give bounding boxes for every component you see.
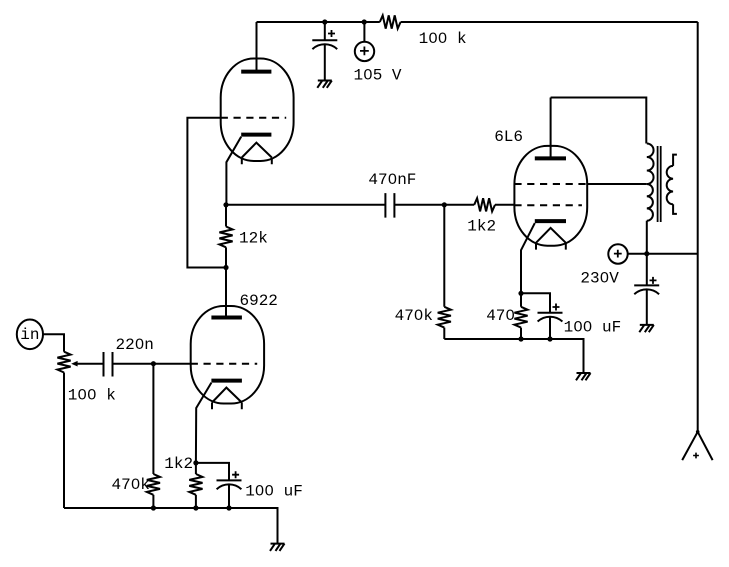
node 105V source junction: [362, 19, 367, 24]
svg-text:220n: 220n: [116, 336, 154, 354]
ground (stage 1 rail): [270, 544, 285, 551]
svg-text:470k: 470k: [112, 476, 150, 494]
triode V1a heater: [212, 388, 242, 410]
transformer T1 core: [658, 146, 661, 222]
wire screen grid to transformer tap: [587, 183, 647, 185]
wire V1b cathode lead: [226, 137, 241, 205]
pentode V2 control grid: [514, 204, 582, 206]
wire V2 cathode lead: [521, 223, 535, 293]
wire ground rail stage 1: [64, 508, 278, 544]
capacitor 230V electrolytic: [634, 254, 659, 325]
wire 12k bottom to V1a plate: [225, 268, 227, 318]
svg-text:230V: 230V: [580, 270, 619, 288]
svg-text:1k2: 1k2: [467, 218, 496, 236]
node B+ junction: [644, 251, 649, 256]
capacitor 470nF coupling: [385, 193, 444, 218]
triode V1b heater: [242, 143, 272, 165]
wire ground rail stage 2: [444, 339, 583, 373]
resistor 470k (6L6 grid leak): [438, 205, 451, 339]
triode V1b upper (cascode) envelope: [221, 59, 294, 162]
svg-text:6L6: 6L6: [494, 128, 523, 146]
resistor 12k: [219, 205, 232, 268]
triode V1a cathode: [211, 379, 242, 383]
wire B+ junction to right bus: [647, 253, 698, 255]
capacitor 220n: [104, 352, 154, 377]
wire V1a cathode lead: [196, 383, 212, 463]
wire V2 plate to transformer: [551, 98, 647, 144]
svg-text:105 V: 105 V: [354, 67, 402, 85]
potentiometer wiper arrow: [71, 361, 103, 367]
wire pot bottom to ground rail: [63, 373, 65, 509]
svg-text:100 uF: 100 uF: [245, 483, 303, 501]
triode V1a (6922 input) envelope: [191, 306, 264, 404]
svg-text:12k: 12k: [239, 230, 268, 248]
svg-text:1k2: 1k2: [164, 455, 193, 473]
potentiometer 100 k body: [57, 352, 70, 373]
source 230V: [608, 244, 647, 263]
pentode V2 heater: [536, 228, 566, 250]
ground (230V cap): [639, 325, 654, 332]
triode V1b grid: [221, 117, 287, 119]
wire right vertical bus: [697, 22, 699, 432]
capacitor 100 uF (V1a cathode bypass): [196, 463, 242, 508]
zero-glyph dot masks: [81, 36, 606, 492]
svg-text:470k: 470k: [395, 307, 433, 325]
wire junction to V1a grid: [153, 363, 190, 365]
pentode V2 plate: [535, 98, 566, 159]
node plate-supply junction (filter cap): [322, 19, 327, 24]
node V1a cathode junction: [193, 460, 198, 465]
node rail2 dot cap: [547, 336, 552, 341]
transformer T1 primary: [647, 144, 654, 221]
resistor 1k2 (V1a cathode): [189, 463, 202, 508]
pentode V2 cathode: [535, 219, 566, 223]
node 6L6 grid junction: [442, 202, 447, 207]
resistor 470 (V2 cathode): [514, 293, 527, 339]
source 105 V: [355, 22, 374, 61]
node V2 cathode junction: [518, 291, 523, 296]
svg-text:100 uF: 100 uF: [564, 319, 622, 337]
capacitor 100 uF (V2 cathode bypass): [521, 293, 563, 339]
node cascode cathode junction: [223, 202, 228, 207]
wire input to pot: [43, 334, 64, 351]
wire V1b grid lead (to 12k bottom): [187, 118, 226, 268]
node rail2 dot 470: [518, 336, 523, 341]
pentode V2 (6L6) envelope: [514, 146, 587, 246]
svg-text:in: in: [20, 326, 39, 344]
resistor 1k2 (6L6 grid stopper): [444, 198, 514, 211]
ground (stage 2 rail): [576, 373, 591, 380]
resistor 470k (grid leak V1a): [147, 364, 160, 508]
wire top B+ rail right segment: [401, 21, 698, 23]
triode V1b cathode: [241, 133, 271, 137]
wire primary bottom lead: [646, 221, 648, 254]
triode V1a grid: [191, 363, 258, 365]
svg-text:6922: 6922: [240, 292, 278, 310]
pentode V2 screen grid: [514, 183, 587, 185]
node grid junction V1a: [151, 361, 156, 366]
wire junction to coupling cap: [226, 204, 385, 206]
triode V1a plate: [211, 316, 242, 320]
ground (filter cap): [317, 81, 332, 88]
node rail dot cap: [226, 505, 231, 510]
capacitor 100uF filter (105V node): [312, 22, 337, 81]
input terminal circle "in": [17, 320, 43, 350]
resistor 100 k (dropping): [380, 15, 401, 28]
wire top B+ rail left segment: [257, 21, 380, 23]
node 12k bottom junction: [223, 265, 228, 270]
node rail dot 470k: [151, 505, 156, 510]
node rail dot 1k2: [193, 505, 198, 510]
transformer T1 secondary: [667, 155, 677, 214]
output terminal (speaker +): [682, 430, 712, 460]
triode V1b plate: [241, 22, 271, 72]
